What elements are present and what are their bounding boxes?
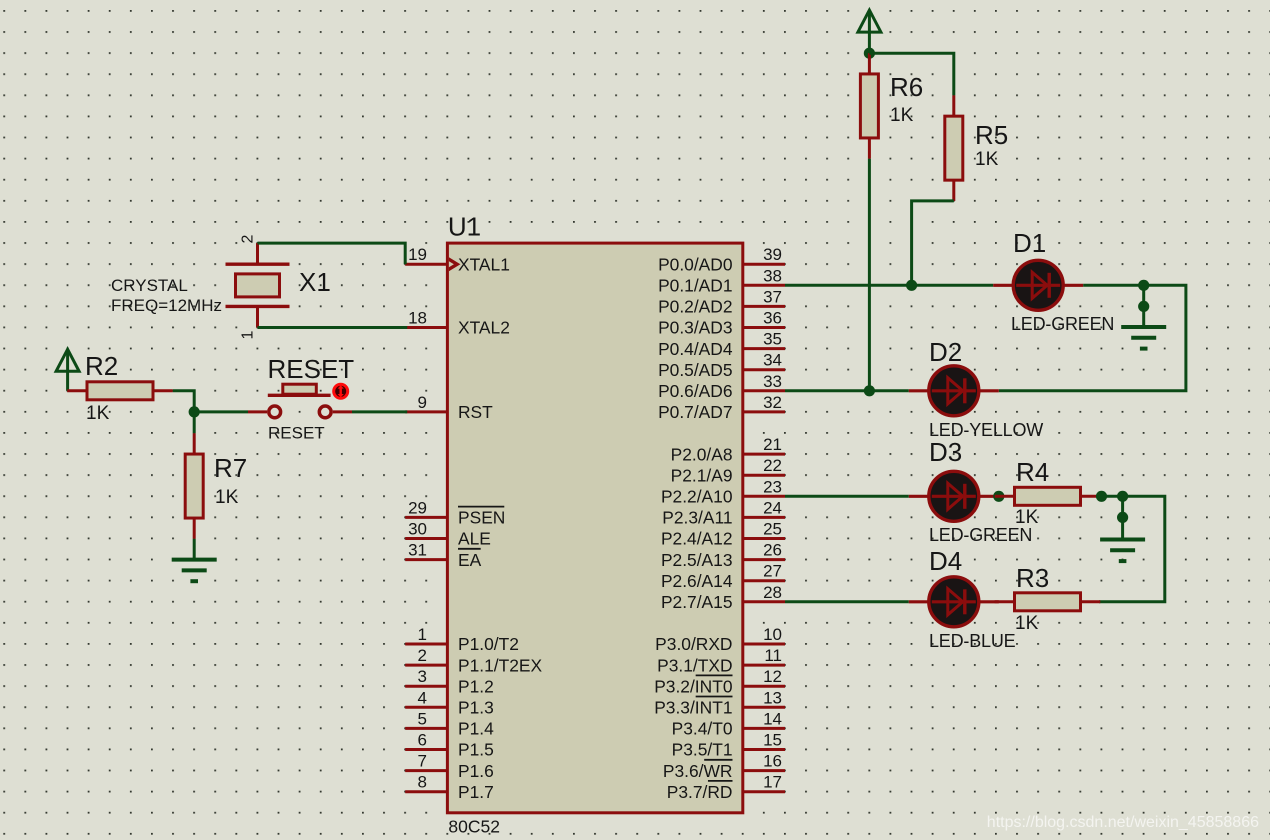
svg-text:26: 26 [763, 541, 782, 560]
junction node R5/P0.1 [906, 280, 917, 291]
svg-text:31: 31 [408, 541, 427, 560]
pin 35 (P0.4/AD4) [658, 330, 785, 359]
svg-text:P1.4: P1.4 [458, 719, 494, 739]
resistor R3 [995, 593, 1101, 611]
svg-text:17: 17 [763, 773, 782, 792]
junction node ground tap D3/D4 [1117, 491, 1128, 502]
svg-text:34: 34 [763, 351, 782, 370]
svg-text:P3.1/TXD: P3.1/TXD [657, 655, 732, 675]
LED D1 [993, 260, 1083, 310]
svg-text:35: 35 [763, 330, 782, 349]
ground symbol near D1 [1121, 285, 1166, 348]
pin 3 (P1.2) [405, 667, 494, 696]
svg-text:P1.1/T2EX: P1.1/T2EX [458, 655, 543, 675]
svg-text:P2.0/A8: P2.0/A8 [671, 444, 733, 464]
svg-text:P0.4/AD4: P0.4/AD4 [658, 339, 733, 359]
svg-text:P0.5/AD5: P0.5/AD5 [658, 360, 732, 380]
svg-text:P2.2/A10: P2.2/A10 [661, 487, 733, 507]
push button RESET [248, 384, 352, 418]
resistor R7 [185, 433, 203, 539]
pin 8 (P1.7) [405, 773, 494, 802]
svg-text:LED-GREEN: LED-GREEN [929, 525, 1032, 545]
svg-text:P2.4/A12: P2.4/A12 [661, 529, 733, 549]
svg-text:12: 12 [763, 667, 782, 686]
LED D2 [909, 366, 999, 416]
wire D1 to right rail [999, 285, 1186, 391]
svg-text:14: 14 [763, 709, 782, 728]
svg-text:1: 1 [240, 331, 257, 340]
pin 6 (P1.5) [405, 731, 494, 760]
svg-text:13: 13 [763, 688, 782, 707]
svg-text:P0.6/AD6: P0.6/AD6 [658, 381, 732, 401]
svg-text:P0.3/AD3: P0.3/AD3 [658, 318, 732, 338]
pin 24 (P2.3/A11) [662, 498, 785, 527]
pin 30 (ALE) [405, 520, 491, 549]
wire R2 to junction [173, 391, 194, 412]
pin 18 (XTAL2) [405, 309, 510, 338]
svg-text:LED-BLUE: LED-BLUE [929, 631, 1016, 651]
svg-text:XTAL1: XTAL1 [458, 254, 510, 274]
svg-text:29: 29 [408, 498, 427, 517]
svg-text:2: 2 [418, 646, 427, 665]
pin 28 (P2.7/A15) [661, 583, 785, 612]
svg-text:15: 15 [763, 731, 782, 750]
pin 32 (P0.7/AD7) [658, 393, 785, 422]
svg-text:19: 19 [408, 245, 427, 264]
svg-text:P0.1/AD1: P0.1/AD1 [658, 276, 732, 296]
svg-text:1K: 1K [1015, 507, 1039, 528]
svg-text:39: 39 [763, 245, 782, 264]
svg-text:D1: D1 [1013, 228, 1046, 258]
svg-text:P3.2/INT0: P3.2/INT0 [654, 676, 732, 696]
svg-text:P1.6: P1.6 [458, 761, 494, 781]
wire R7 to ground [193, 539, 196, 560]
svg-text:RESET: RESET [268, 354, 355, 384]
pin 22 (P2.1/A9) [671, 456, 785, 485]
svg-text:1K: 1K [215, 487, 239, 508]
svg-text:D3: D3 [929, 437, 962, 467]
resistor R6 [860, 53, 878, 159]
svg-text:1K: 1K [86, 403, 110, 424]
svg-text:1: 1 [418, 625, 427, 644]
svg-text:P1.5: P1.5 [458, 740, 494, 760]
svg-text:RST: RST [458, 402, 493, 422]
svg-text:X1: X1 [299, 267, 331, 297]
svg-text:P2.3/A11: P2.3/A11 [662, 508, 732, 528]
pin 1 (P1.0/T2) [405, 625, 519, 654]
svg-text:EA: EA [458, 550, 482, 570]
svg-text:CRYSTAL: CRYSTAL [111, 276, 188, 295]
pin 36 (P0.3/AD3) [658, 309, 785, 338]
svg-text:R2: R2 [85, 351, 118, 381]
svg-text:23: 23 [763, 477, 782, 496]
wire R4 to right rail and R3 [1099, 496, 1165, 602]
svg-text:30: 30 [408, 520, 427, 539]
svg-text:RESET: RESET [268, 424, 325, 443]
pin 15 (P3.5/T1) [672, 731, 785, 760]
svg-text:https://blog.csdn.net/weixin_4: https://blog.csdn.net/weixin_45858866 [987, 814, 1259, 831]
svg-text:P0.2/AD2: P0.2/AD2 [658, 297, 732, 317]
svg-text:D2: D2 [929, 337, 962, 367]
svg-text:33: 33 [763, 372, 782, 391]
svg-text:D4: D4 [929, 546, 962, 576]
svg-text:3: 3 [418, 667, 427, 686]
pin 16 (P3.6/WR) [663, 752, 785, 781]
pin 10 (P3.0/RXD) [655, 625, 785, 654]
svg-text:38: 38 [763, 266, 782, 285]
wire R5 bottom to P0.1 net [912, 201, 954, 285]
pin 37 (P0.2/AD2) [658, 287, 785, 316]
svg-text:PSEN: PSEN [458, 508, 505, 528]
pin 31 (EA) [405, 541, 481, 570]
svg-text:ALE: ALE [458, 529, 491, 549]
pin 12 (P3.2/INT0) [654, 667, 785, 696]
svg-text:P0.0/AD0: P0.0/AD0 [658, 254, 732, 274]
pin 38 (P0.1/AD1) [658, 266, 785, 295]
svg-text:P2.5/A13: P2.5/A13 [661, 550, 733, 570]
wire junction to R7 [193, 412, 196, 433]
power symbol VCC (left) [56, 349, 79, 391]
svg-text:P3.4/T0: P3.4/T0 [672, 719, 733, 739]
resistor R5 [945, 95, 963, 201]
svg-text:P0.7/AD7: P0.7/AD7 [658, 402, 732, 422]
svg-text:FREQ=12MHz: FREQ=12MHz [111, 296, 222, 315]
LED D3 [909, 471, 999, 521]
svg-text:XTAL2: XTAL2 [458, 318, 510, 338]
pin 9 (RST) [405, 393, 493, 422]
pin 23 (P2.2/A10) [661, 477, 785, 506]
svg-text:16: 16 [763, 752, 782, 771]
pin 13 (P3.3/INT1) [654, 688, 785, 717]
svg-text:18: 18 [408, 309, 427, 328]
svg-text:21: 21 [763, 435, 782, 454]
LED D4 [909, 577, 999, 627]
pin 34 (P0.5/AD5) [658, 351, 785, 380]
svg-text:P3.5/T1: P3.5/T1 [672, 740, 733, 760]
pin 21 (P2.0/A8) [671, 435, 785, 464]
junction node D3/R4 [993, 491, 1004, 502]
svg-text:27: 27 [763, 562, 782, 581]
wire VCC to R5 top [869, 53, 953, 95]
svg-text:32: 32 [763, 393, 782, 412]
pin 4 (P1.3) [405, 688, 494, 717]
svg-text:1K: 1K [1015, 613, 1039, 634]
svg-text:1K: 1K [975, 149, 999, 170]
svg-text:P3.0/RXD: P3.0/RXD [655, 634, 732, 654]
wire pin33 to D2 [785, 389, 909, 392]
svg-text:U1: U1 [448, 212, 481, 242]
svg-text:11: 11 [764, 646, 782, 665]
svg-text:R7: R7 [214, 453, 247, 483]
pin 25 (P2.4/A12) [661, 520, 785, 549]
junction node RST net [189, 406, 200, 417]
pin 2 (P1.1/T2EX) [405, 646, 542, 675]
svg-text:R6: R6 [890, 72, 923, 102]
pin 17 (P3.7/RD) [667, 773, 785, 802]
svg-text:7: 7 [418, 752, 427, 771]
svg-text:80C52: 80C52 [448, 816, 500, 836]
wire X1 pin2 to XTAL1 (pin19) [258, 243, 406, 264]
svg-text:P2.7/A15: P2.7/A15 [661, 592, 733, 612]
svg-text:P2.6/A14: P2.6/A14 [661, 571, 733, 591]
wire pin23 to D3 [785, 495, 909, 498]
ground symbol near R4 [1100, 496, 1145, 561]
pin 29 (PSEN) [405, 498, 505, 527]
svg-text:22: 22 [763, 456, 782, 475]
wire junction to reset button [194, 410, 248, 413]
pin 14 (P3.4/T0) [672, 709, 785, 738]
svg-text:P1.2: P1.2 [458, 676, 494, 696]
svg-text:24: 24 [763, 498, 782, 517]
pin 26 (P2.5/A13) [661, 541, 785, 570]
svg-text:2: 2 [240, 235, 257, 244]
XTAL1 clock input chevron [449, 257, 461, 271]
pin 7 (P1.6) [405, 752, 494, 781]
svg-text:P1.0/T2: P1.0/T2 [458, 634, 519, 654]
svg-text:28: 28 [763, 583, 782, 602]
junction node R4 right [1096, 491, 1107, 502]
power symbol VCC (top) [858, 10, 881, 53]
svg-text:25: 25 [763, 520, 782, 539]
svg-text:R5: R5 [975, 120, 1008, 150]
junction node D1/ground tap [1138, 280, 1149, 291]
wire pin38 to D1 [785, 284, 993, 287]
svg-text:9: 9 [418, 393, 427, 412]
svg-text:R4: R4 [1016, 457, 1049, 487]
IC U1 80C52 microcontroller body [447, 243, 742, 813]
svg-text:LED-GREEN: LED-GREEN [1011, 314, 1114, 334]
resistor R4 [995, 487, 1101, 505]
svg-text:10: 10 [763, 625, 782, 644]
svg-text:5: 5 [418, 709, 427, 728]
crystal X1 [226, 243, 290, 327]
pin 39 (P0.0/AD0) [658, 245, 785, 274]
svg-text:1K: 1K [890, 105, 914, 126]
RESET button red actuator [334, 384, 348, 398]
svg-text:P3.3/INT1: P3.3/INT1 [654, 698, 732, 718]
ground symbol below R7 [172, 560, 217, 582]
pin 11 (P3.1/TXD) [657, 646, 785, 675]
junction node below VCC [864, 48, 875, 59]
wire pin28 to D4 [785, 600, 909, 603]
pin 5 (P1.4) [405, 709, 494, 738]
svg-text:36: 36 [763, 309, 782, 328]
wire X1 pin1 to XTAL2 (pin18) [258, 326, 408, 329]
wire R6 bottom to P0.6 net [868, 159, 871, 391]
svg-text:4: 4 [418, 688, 427, 707]
svg-text:P2.1/A9: P2.1/A9 [671, 465, 733, 485]
svg-text:P3.6/WR: P3.6/WR [663, 761, 733, 781]
junction node R6/P0.6 [864, 385, 875, 396]
pin 33 (P0.6/AD6) [658, 372, 785, 401]
svg-text:P1.3: P1.3 [458, 698, 494, 718]
svg-text:P3.7/RD: P3.7/RD [667, 782, 733, 802]
svg-text:37: 37 [763, 287, 782, 306]
svg-text:8: 8 [418, 773, 427, 792]
svg-text:R3: R3 [1016, 563, 1049, 593]
pin 27 (P2.6/A14) [661, 562, 785, 591]
wire reset button to RST (pin9) [352, 410, 407, 413]
resistor R2 [67, 382, 173, 400]
svg-text:6: 6 [418, 731, 427, 750]
pin 19 (XTAL1) [405, 245, 510, 274]
svg-text:P1.7: P1.7 [458, 782, 494, 802]
